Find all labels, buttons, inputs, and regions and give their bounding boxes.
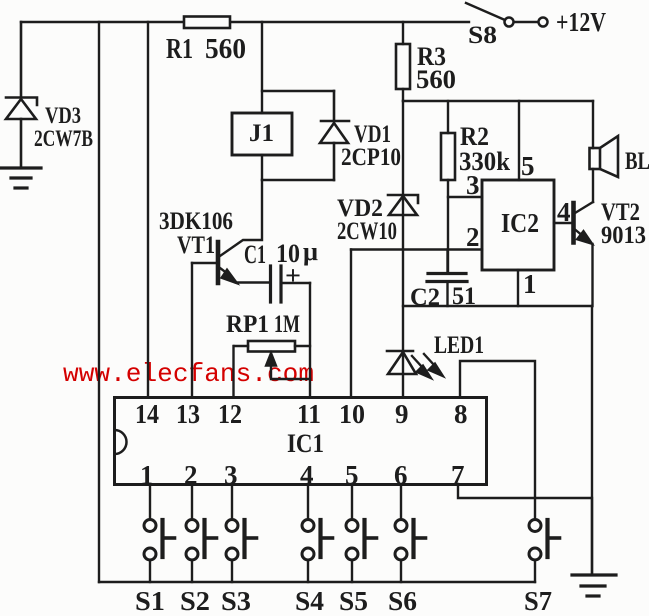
label BL — [625, 148, 649, 175]
svg-text:13: 13 — [176, 399, 200, 429]
LED1 light arrows — [412, 356, 423, 368]
svg-text:4: 4 — [557, 197, 571, 227]
svg-text:J1: J1 — [249, 120, 274, 147]
label VT2 9013 — [601, 199, 646, 249]
svg-text:2: 2 — [466, 222, 480, 252]
label C2 51 — [410, 283, 476, 311]
label +12V — [556, 7, 606, 37]
svg-text:11: 11 — [297, 399, 321, 429]
wire bottom rail y=306 — [403, 305, 592, 307]
wire mid rail y=101 — [403, 100, 593, 102]
svg-text:S6: S6 — [388, 586, 417, 611]
switch S1 — [144, 484, 175, 582]
svg-text:C1: C1 — [244, 240, 266, 269]
resistor R2 — [447, 101, 449, 133]
label LED1 — [434, 332, 484, 359]
svg-text:IC1: IC1 — [287, 429, 324, 458]
IC U1 box IC1 — [115, 398, 487, 485]
svg-text:S4: S4 — [295, 586, 324, 611]
label RP1 1M — [226, 311, 300, 338]
svg-text:560: 560 — [416, 65, 456, 94]
wire bottom of J1/VD1 loop — [262, 179, 334, 181]
wire bottom bus y=582 — [99, 581, 535, 583]
label VD1 2CP10 — [341, 121, 401, 171]
label pin 1 — [523, 269, 537, 299]
switch S8 — [466, 3, 505, 20]
label VD2 2CW10 — [337, 195, 397, 245]
svg-text:S1: S1 — [135, 586, 165, 611]
wire IC2 pin1 — [517, 270, 519, 306]
LED1 — [387, 351, 416, 374]
label VD3 2CW7B — [34, 103, 93, 151]
wire C1 right to pin11 rail — [281, 282, 310, 284]
svg-text:RP1: RP1 — [226, 311, 269, 338]
label IC1 — [287, 429, 324, 458]
transistor VT2 — [571, 203, 576, 243]
label pin 4 — [557, 197, 571, 227]
svg-text:1M: 1M — [274, 311, 300, 338]
svg-text:VT1: VT1 — [177, 232, 215, 259]
switch S5 — [346, 484, 377, 582]
label 3DK106 VT1 — [159, 208, 233, 259]
wire J1 bottom — [261, 155, 263, 180]
label C1 10u + — [244, 237, 318, 290]
label R1 560 — [166, 34, 246, 65]
labels IC1 bottom pins 1-7 — [140, 460, 465, 490]
switch S7 — [529, 520, 560, 583]
speaker BL — [592, 101, 594, 148]
wire pin10 rail x=351 — [350, 250, 352, 398]
switch S3 — [226, 484, 257, 582]
svg-text:BL: BL — [625, 148, 649, 175]
svg-text:S2: S2 — [180, 586, 210, 611]
svg-text:10: 10 — [339, 399, 365, 429]
wire VT1 base — [192, 262, 216, 264]
svg-text:14: 14 — [135, 399, 159, 429]
svg-text:μ: μ — [303, 237, 318, 266]
svg-text:3: 3 — [224, 460, 238, 490]
wire IC2 pin2 to pin10 rail — [351, 248, 482, 250]
svg-text:12: 12 — [218, 399, 242, 429]
svg-text:1: 1 — [140, 460, 154, 490]
svg-text:IC2: IC2 — [501, 208, 539, 238]
svg-text:+12V: +12V — [556, 7, 606, 37]
op-amp IC2 — [482, 180, 554, 270]
zener diode VD3 — [6, 22, 37, 168]
wire top power rail y=22 — [21, 21, 469, 23]
labels S1-S7 — [135, 586, 552, 616]
svg-text:9: 9 — [395, 399, 409, 429]
wire RP1 right lead — [295, 345, 310, 347]
resistor R3 — [402, 22, 404, 44]
ground (left, below VD3) — [1, 168, 41, 188]
switch S6 — [395, 484, 426, 582]
wire VT2 base from IC2 pin4 — [554, 222, 571, 224]
wire pin7 to ground — [458, 484, 591, 498]
wire emitter to C1 — [236, 281, 269, 283]
svg-text:2: 2 — [184, 460, 198, 490]
label R3 560 — [416, 42, 456, 94]
label pin 3 — [466, 170, 480, 200]
svg-text:S7: S7 — [524, 586, 552, 611]
watermark www.elecfans.com — [63, 359, 314, 389]
label R2 330k — [459, 122, 511, 176]
wire J1 loop down to VT1 collector — [220, 180, 262, 256]
svg-text:S5: S5 — [339, 586, 368, 611]
potentiometer RP1 — [248, 341, 295, 352]
wire pin14 rail x=148 — [147, 22, 149, 397]
svg-text:2CP10: 2CP10 — [341, 144, 401, 171]
labels IC1 top pins 14 13 12 11 10 9 8 — [135, 399, 468, 429]
svg-text:9013: 9013 — [601, 222, 646, 249]
svg-text:2CW7B: 2CW7B — [34, 126, 93, 151]
IC1 notch — [115, 430, 127, 454]
diode VD1 — [320, 91, 349, 180]
relay J1 — [232, 113, 292, 155]
svg-text:S3: S3 — [221, 586, 251, 611]
RP1 wiper arrow — [266, 352, 277, 366]
svg-text:LED1: LED1 — [434, 332, 484, 359]
wire IC2 pin3 — [448, 196, 482, 198]
svg-text:+: + — [285, 261, 301, 290]
VT2 collector — [575, 202, 593, 213]
svg-text:2CW10: 2CW10 — [337, 218, 397, 245]
wire VD2/LED rail x=403 — [402, 101, 404, 397]
svg-text:R1: R1 — [166, 34, 193, 65]
label S8 — [468, 22, 497, 49]
label pin 2 — [466, 222, 480, 252]
switch S2 — [186, 484, 217, 582]
svg-text:5: 5 — [521, 151, 535, 181]
zener diode VD2 — [388, 195, 418, 215]
wire left rail x=99 top to bottom bus — [98, 22, 100, 582]
VT2 emitter with arrow — [575, 230, 583, 237]
svg-text:4: 4 — [300, 460, 314, 490]
VT1 emitter with arrow — [220, 268, 228, 274]
switch S4 — [302, 484, 333, 582]
svg-text:8: 8 — [454, 399, 468, 429]
wire pin13 x=192 — [191, 263, 193, 397]
svg-text:3: 3 — [466, 170, 480, 200]
svg-text:VD3: VD3 — [45, 103, 81, 128]
wire right vertical x=592 down to ground — [591, 306, 593, 575]
transistor VT1 — [216, 242, 221, 283]
wire RP1 left lead to pin12 — [234, 345, 248, 347]
wire J1 branch from rail — [261, 22, 263, 113]
ground (bottom right) — [591, 498, 593, 575]
svg-text:560: 560 — [205, 34, 246, 65]
label pin 5 — [521, 151, 535, 181]
wire top of J1/VD1 loop — [262, 90, 334, 92]
wire IC2 pin5 — [518, 101, 520, 180]
svg-text:S8: S8 — [468, 22, 497, 49]
capacitor C1 — [271, 266, 282, 302]
resistor R1 — [184, 17, 230, 29]
capacitor C2 — [446, 250, 448, 273]
svg-text:3DK106: 3DK106 — [159, 208, 233, 235]
svg-text:1: 1 — [523, 269, 537, 299]
wire pin8 to S7 path — [460, 361, 535, 519]
wire pin11 rail x=310 — [309, 283, 311, 397]
